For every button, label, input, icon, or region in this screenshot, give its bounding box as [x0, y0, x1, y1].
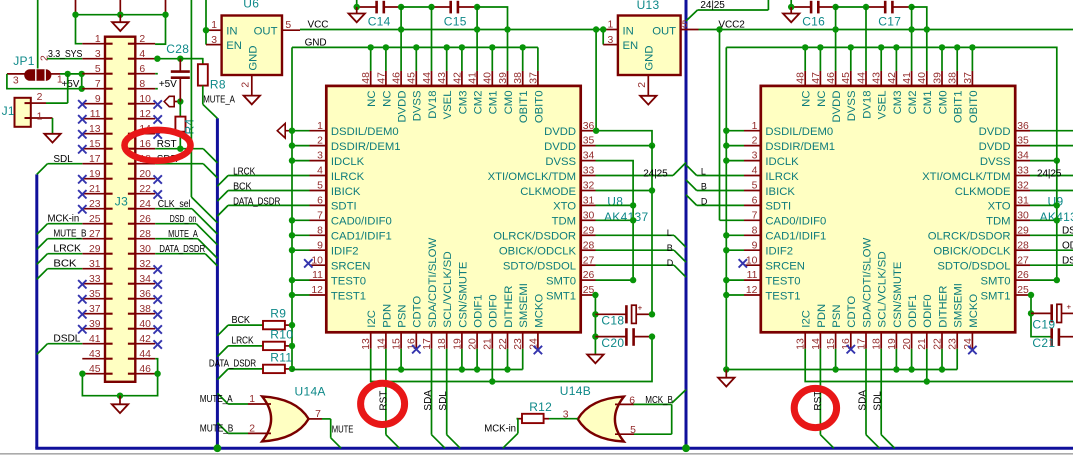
- wire U8 pin29 to bus label L: [596, 235, 687, 247]
- svg-text:XTO: XTO: [553, 201, 576, 213]
- svg-text:RST: RST: [157, 139, 177, 150]
- svg-text:CLK_sel: CLK_sel: [158, 199, 191, 210]
- wire U8 left GND column: [291, 47, 293, 369]
- svg-text:5: 5: [285, 20, 291, 31]
- svg-text:14: 14: [376, 338, 387, 350]
- svg-text:C21: C21: [1032, 336, 1055, 350]
- junction VCC rail pin36 column: [593, 26, 599, 32]
- junction RST / R4: [177, 146, 183, 152]
- svg-text:DVDD: DVDD: [397, 91, 409, 123]
- wire U8 pin36 DVDD to VCC: [596, 30, 653, 146]
- wire MUTE_A from R8 to bus: [203, 86, 218, 119]
- wire DATA_DSDR J3 pin30: [155, 254, 217, 266]
- svg-text:3: 3: [608, 35, 614, 46]
- resistor R8: [180, 59, 207, 86]
- svg-text:DV18: DV18: [861, 91, 873, 119]
- junction DVDD chain pin32: [649, 187, 655, 193]
- svg-text:37: 37: [963, 72, 974, 84]
- svg-text:SDL: SDL: [873, 391, 884, 411]
- junctions U8 VCC rail: [398, 26, 511, 32]
- svg-text:7: 7: [317, 210, 323, 221]
- junction U9 DVSS chain pin26: [1054, 277, 1060, 283]
- svg-text:OBIT1: OBIT1: [518, 91, 530, 124]
- svg-text:SMT1: SMT1: [546, 290, 576, 302]
- svg-text:DATA_DSDR: DATA_DSDR: [159, 244, 205, 255]
- svg-text:24|25: 24|25: [643, 169, 668, 180]
- svg-text:DSD_on: DSD_on: [170, 214, 197, 225]
- svg-text:5: 5: [752, 181, 758, 192]
- junction rail B2 pin21: [924, 378, 930, 384]
- svg-text:24|25: 24|25: [1037, 169, 1062, 180]
- svg-text:DVSS: DVSS: [545, 156, 576, 168]
- wire U9 pin31 XTO: [1030, 204, 1057, 206]
- svg-text:21: 21: [483, 338, 494, 350]
- svg-text:I2C: I2C: [801, 310, 813, 328]
- svg-text:46: 46: [392, 72, 403, 84]
- wire 24|25 top right: [686, 0, 768, 21]
- svg-text:5: 5: [317, 181, 323, 192]
- svg-text:40: 40: [917, 72, 928, 84]
- svg-text:CM3: CM3: [892, 91, 904, 115]
- svg-text:PDN: PDN: [816, 304, 828, 328]
- junction rail B pin21: [489, 378, 495, 384]
- junctions rail A U8: [398, 366, 511, 372]
- svg-text:15: 15: [826, 338, 837, 350]
- svg-text:OUT: OUT: [254, 25, 278, 37]
- bus vertical left: [35, 174, 38, 448]
- svg-text:VCC: VCC: [308, 20, 329, 31]
- junction DVSS chain pin26: [630, 277, 636, 283]
- svg-text:6: 6: [752, 196, 758, 207]
- wire U8 pin26 SMT0: [596, 279, 634, 281]
- junctions U8 left column: [289, 128, 295, 299]
- svg-text:XTO: XTO: [988, 201, 1011, 213]
- wire SDL to J3 pin17: [37, 164, 83, 175]
- svg-text:9: 9: [752, 240, 758, 251]
- wire rail B (U8 bottom): [371, 337, 652, 382]
- svg-text:B: B: [701, 181, 707, 191]
- svg-text:43: 43: [872, 72, 883, 84]
- svg-text:33: 33: [583, 166, 595, 177]
- svg-text:1: 1: [608, 20, 614, 31]
- svg-text:AK4137: AK4137: [604, 210, 649, 224]
- svg-text:IDCLK: IDCLK: [331, 156, 365, 168]
- sheet border line bottom: [0, 453, 1073, 455]
- svg-text:DSDIL/DEM0: DSDIL/DEM0: [765, 126, 833, 138]
- svg-text:42: 42: [887, 72, 898, 84]
- svg-text:BCK: BCK: [233, 182, 252, 193]
- ground symbol below C14: [349, 7, 365, 22]
- svg-text:MCKO: MCKO: [968, 294, 980, 328]
- svg-text:43: 43: [437, 72, 448, 84]
- wire DSD_on J3 pin26: [155, 224, 217, 245]
- svg-text:J3: J3: [115, 195, 128, 209]
- wire SDA descender U9 pin17: [866, 349, 880, 448]
- svg-text:17: 17: [856, 338, 867, 350]
- jumper JP1: [25, 69, 51, 81]
- wire U8 pin31 XTO: [596, 204, 634, 206]
- svg-text:CM0: CM0: [937, 91, 949, 115]
- junction U9 DVSS chain pin31: [1054, 202, 1060, 208]
- svg-text:1: 1: [249, 394, 255, 405]
- svg-text:SRCEN: SRCEN: [765, 261, 805, 273]
- svg-text:DVDD: DVDD: [979, 126, 1011, 138]
- svg-text:R10: R10: [270, 327, 293, 341]
- svg-text:1: 1: [752, 121, 758, 132]
- annotation red ellipse J3 pin16 RST: [125, 130, 191, 161]
- svg-text:NC: NC: [366, 91, 378, 107]
- svg-text:IDCLK: IDCLK: [765, 156, 799, 168]
- resistor R9: [263, 321, 292, 329]
- svg-text:SDTI: SDTI: [331, 201, 357, 213]
- svg-text:28: 28: [1017, 240, 1029, 251]
- svg-text:I2C: I2C: [366, 310, 378, 328]
- junction ground loop bottom: [117, 393, 123, 399]
- svg-text:TDM: TDM: [552, 216, 576, 228]
- wire U8 pin30 TDM: [596, 219, 634, 221]
- bus vertical middle: [216, 118, 219, 448]
- svg-text:CAD1/IDIF1: CAD1/IDIF1: [765, 231, 826, 243]
- svg-text:D: D: [667, 258, 674, 268]
- U13 pin names: [623, 25, 677, 52]
- svg-text:34: 34: [583, 151, 595, 162]
- capacitor C21: [1052, 328, 1073, 346]
- wire U6 input from top: [205, 0, 207, 45]
- junction C19 left: [1028, 310, 1034, 316]
- wire CLK_sel J3 pin24: [155, 209, 217, 234]
- wire R12 to U14B pin3: [549, 418, 578, 420]
- junction top rail x165: [162, 12, 168, 18]
- svg-text:OBIT0: OBIT0: [533, 91, 545, 124]
- wires U9 left pins to column: [726, 131, 744, 295]
- no-connect U8 pin24: [534, 346, 542, 354]
- svg-text:+5V: +5V: [62, 79, 80, 90]
- svg-text:RST: RST: [379, 391, 390, 411]
- svg-text:MUTE_A: MUTE_A: [203, 94, 235, 105]
- svg-text:R12: R12: [529, 400, 552, 414]
- junction DVSS chain pin30: [630, 217, 636, 223]
- pin 1 U13: [603, 29, 618, 31]
- wire J3 pin4 row (C28/R8 net): [155, 58, 203, 60]
- svg-text:DS: DS: [1062, 255, 1073, 266]
- svg-text:27: 27: [1017, 255, 1029, 266]
- svg-text:U13: U13: [637, 0, 660, 12]
- svg-text:27: 27: [583, 255, 595, 266]
- wire D to U9 pin6: [686, 195, 744, 206]
- op-amp U9 AK4137 body: [761, 86, 1015, 332]
- junction U9 pin25 corner: [1028, 292, 1034, 298]
- svg-text:R11: R11: [270, 350, 292, 364]
- svg-text:39: 39: [498, 72, 509, 84]
- wires U8 VCC pins 46/41/39: [401, 7, 507, 71]
- svg-text:PDN: PDN: [381, 304, 393, 328]
- pin stubs and numbers U9: [744, 71, 1030, 350]
- svg-text:20: 20: [902, 338, 913, 350]
- svg-text:4: 4: [317, 166, 323, 177]
- J3 no-connect marks right: [154, 100, 162, 348]
- wires U9 VCC2 pins 46/41/40: [836, 7, 927, 71]
- bus horizontal bottom: [35, 447, 1073, 450]
- svg-text:13: 13: [361, 338, 372, 350]
- svg-text:DSDIL/DEM0: DSDIL/DEM0: [331, 126, 399, 138]
- svg-text:CM1: CM1: [488, 91, 500, 115]
- wire top rail to J3 pins 1-2: [76, 0, 166, 44]
- pin 1 U6: [206, 29, 222, 31]
- svg-text:OBIT0: OBIT0: [968, 91, 980, 124]
- pin 2 U6 GND: [251, 75, 253, 96]
- pin 5 U13 OUT: [681, 29, 699, 31]
- wire LRCK to U8 pin4: [217, 176, 309, 187]
- wire SDA descender U8 pin17: [432, 349, 446, 448]
- svg-text:PSN: PSN: [831, 304, 843, 327]
- svg-text:CM3: CM3: [457, 91, 469, 115]
- wire cap row C17 to VCC2 corner: [912, 7, 927, 30]
- junction U9 DVSS chain pin30: [1054, 217, 1060, 223]
- svg-text:22: 22: [498, 338, 509, 350]
- svg-text:28: 28: [583, 240, 595, 251]
- svg-text:VSEL: VSEL: [442, 91, 454, 120]
- svg-text:CAD0/IDIF0: CAD0/IDIF0: [331, 216, 392, 228]
- svg-text:CAD1/IDIF1: CAD1/IDIF1: [331, 231, 392, 243]
- svg-text:CDTO: CDTO: [846, 296, 858, 328]
- svg-text:IBICK: IBICK: [765, 186, 795, 198]
- svg-text:10: 10: [746, 255, 758, 266]
- wire U9 pin44 from C17: [865, 7, 867, 71]
- junction DVDD chain pin35: [649, 142, 655, 148]
- wire RST descender U8 pin14: [386, 349, 400, 448]
- svg-text:10: 10: [311, 255, 323, 266]
- svg-text:C17: C17: [878, 14, 901, 28]
- wire VCC rail: [300, 29, 603, 31]
- svg-text:R8: R8: [210, 77, 226, 91]
- wire U8 pin34 DVSS chain: [596, 161, 634, 279]
- svg-text:SMSEMI: SMSEMI: [518, 283, 530, 328]
- svg-text:12: 12: [746, 285, 758, 296]
- svg-text:12: 12: [311, 285, 323, 296]
- svg-text:1: 1: [211, 20, 217, 31]
- svg-text:DVSS: DVSS: [846, 90, 858, 121]
- svg-text:3: 3: [13, 76, 19, 87]
- pin stubs and numbers U8: [310, 71, 596, 350]
- svg-text:L: L: [701, 166, 706, 176]
- svg-text:XTI/OMCLK/TDM: XTI/OMCLK/TDM: [922, 171, 1011, 183]
- ground symbol below U13: [640, 96, 656, 105]
- connector J1: [15, 98, 31, 127]
- svg-text:L: L: [667, 228, 672, 238]
- svg-text:SMT1: SMT1: [980, 290, 1010, 302]
- svg-text:11: 11: [312, 270, 323, 281]
- svg-text:OBICK/ODCLK: OBICK/ODCLK: [933, 246, 1011, 258]
- pin names U9: [765, 90, 1011, 328]
- svg-text:18: 18: [872, 338, 883, 350]
- svg-text:19: 19: [452, 338, 463, 350]
- svg-text:EN: EN: [623, 40, 639, 52]
- hierarchical label arrow at U8 pin1: [277, 123, 292, 138]
- wire U9 pin36 DVDD right: [1030, 130, 1073, 132]
- wire MCK_B loop to U14B pin5: [615, 404, 672, 434]
- svg-text:SMSEMI: SMSEMI: [953, 283, 965, 328]
- junction C14 right / pin46 column: [398, 4, 404, 10]
- junctions U9 left column: [723, 128, 729, 299]
- svg-text:6: 6: [629, 395, 635, 406]
- svg-text:24|25: 24|25: [700, 0, 725, 11]
- svg-text:GND: GND: [247, 45, 259, 70]
- wire U9 pin34 DVSS: [1030, 160, 1057, 162]
- svg-text:31: 31: [583, 196, 595, 207]
- svg-text:IN: IN: [226, 25, 237, 37]
- wire U9 pin26 SMT0: [1030, 279, 1057, 281]
- svg-text:3: 3: [211, 35, 217, 46]
- svg-text:35: 35: [1017, 136, 1029, 147]
- svg-text:2: 2: [317, 136, 323, 147]
- svg-text:2: 2: [37, 92, 43, 103]
- svg-text:41: 41: [468, 72, 479, 84]
- svg-text:DVDD: DVDD: [979, 141, 1011, 153]
- wire U8 pin32 CLKMODE: [596, 190, 653, 192]
- svg-text:U8: U8: [607, 195, 623, 209]
- svg-text:DVSS: DVSS: [980, 156, 1011, 168]
- svg-text:7: 7: [315, 409, 321, 420]
- svg-text:19: 19: [887, 338, 898, 350]
- svg-text:44: 44: [856, 72, 867, 84]
- svg-text:GND: GND: [644, 45, 656, 70]
- wire U9 pin25 SMT1 down to C19/C21: [1030, 295, 1052, 337]
- wire +5V drop pin5 to pin7 row: [81, 74, 83, 89]
- svg-text:DVSS: DVSS: [412, 90, 424, 121]
- svg-text:15: 15: [392, 338, 403, 350]
- svg-text:37: 37: [528, 72, 539, 84]
- svg-text:24: 24: [963, 338, 974, 350]
- J3 pin stubs left: [82, 44, 105, 374]
- or-gate U14A: [262, 396, 309, 441]
- junctions U8 top pins GND rail: [368, 44, 526, 50]
- or-gate U14B: [578, 397, 624, 442]
- no-connect U9 pin16: [847, 345, 855, 353]
- svg-text:SDL: SDL: [438, 391, 449, 411]
- capacitor C18: [595, 303, 652, 323]
- wire BCK to U8 pin5: [217, 191, 309, 202]
- svg-text:22: 22: [932, 338, 943, 350]
- svg-text:U6: U6: [243, 0, 259, 11]
- svg-text:R9: R9: [270, 307, 286, 321]
- svg-text:17: 17: [422, 338, 433, 350]
- svg-text:45: 45: [841, 72, 852, 84]
- junction R11 right: [289, 366, 295, 372]
- svg-text:OUT: OUT: [652, 25, 676, 37]
- ground symbol top-left: [112, 15, 128, 31]
- wire cap row C14-C15: [401, 6, 431, 8]
- svg-text:DVDD: DVDD: [831, 91, 843, 123]
- regulator U6 body: [222, 16, 282, 76]
- ground symbol below J3: [112, 396, 128, 413]
- pin 5 U6 OUT: [282, 29, 300, 31]
- svg-text:35: 35: [583, 136, 595, 147]
- annotation red circle U8 RST: [361, 383, 405, 424]
- svg-text:23: 23: [948, 338, 959, 350]
- wire U9 pin30 TDM: [1030, 219, 1057, 221]
- wire SDR J3 pin18: [155, 164, 217, 178]
- junction R10 right: [289, 343, 295, 349]
- svg-text:DATA_DSDR: DATA_DSDR: [233, 197, 280, 208]
- junction U9 DVSS chain pin34: [1054, 157, 1060, 163]
- wire U9 left GND column: [725, 47, 727, 369]
- junction +5V drop top: [79, 71, 85, 77]
- svg-text:TEST1: TEST1: [331, 290, 366, 302]
- svg-text:CLKMODE: CLKMODE: [955, 186, 1011, 198]
- regulator U13 body: [618, 16, 681, 76]
- wire MCK_B bus entry: [672, 390, 686, 403]
- svg-text:IN: IN: [623, 25, 634, 37]
- wire GND rail corner to pin37: [537, 47, 539, 71]
- wires U9 top pins to GND2 rail: [805, 47, 972, 71]
- ground symbol below U9 column: [718, 370, 734, 387]
- junction C17 left / pin44 column: [863, 4, 869, 10]
- svg-text:33: 33: [1017, 166, 1029, 177]
- junction C28 bottom / arrow / R4: [177, 98, 183, 104]
- no-connect U8 pin16: [412, 345, 420, 353]
- svg-text:TEST1: TEST1: [765, 290, 800, 302]
- svg-text:MCK_B: MCK_B: [645, 395, 673, 406]
- svg-text:IBICK: IBICK: [331, 186, 361, 198]
- svg-text:31: 31: [1017, 196, 1029, 207]
- wire U9 pin29 right edge: [1030, 234, 1073, 236]
- wire U9 DVSS chain down: [1056, 161, 1058, 281]
- svg-text:MCKO: MCKO: [533, 294, 545, 328]
- svg-text:DVDD: DVDD: [544, 141, 576, 153]
- svg-text:29: 29: [1017, 225, 1029, 236]
- capacitor C15: [432, 1, 478, 14]
- svg-text:ODIF1: ODIF1: [473, 294, 485, 327]
- svg-text:32: 32: [1017, 181, 1029, 192]
- svg-text:38: 38: [513, 72, 524, 84]
- wire cap row C16-C17: [836, 6, 866, 8]
- svg-text:RST: RST: [813, 391, 824, 411]
- wire U8 pin33 XTI to bus: [596, 163, 687, 176]
- svg-text:SDA/CDTI/SLOW: SDA/CDTI/SLOW: [427, 237, 439, 327]
- wire rail A2 (U9 bottom): [726, 369, 957, 371]
- svg-text:OBIT1: OBIT1: [953, 91, 965, 124]
- svg-text:MUTE_A: MUTE_A: [168, 229, 198, 240]
- svg-text:B: B: [667, 243, 673, 253]
- wire LRCK to J3 pin29: [37, 254, 83, 265]
- svg-text:OLRCK/DSDOR: OLRCK/DSDOR: [493, 231, 576, 243]
- svg-text:45: 45: [407, 72, 418, 84]
- J3 no-connect marks left: [78, 100, 86, 333]
- wire JP1 pin2 up: [37, 0, 39, 69]
- capacitor C19: [1031, 303, 1073, 323]
- junction top rail x120: [117, 12, 123, 18]
- svg-text:2: 2: [752, 136, 758, 147]
- wire VCC2 column to U9 pin7: [720, 30, 745, 221]
- svg-text:CM1: CM1: [922, 91, 934, 115]
- svg-text:TDM: TDM: [986, 216, 1010, 228]
- junction DVSS chain pin31: [630, 202, 636, 208]
- svg-text:JP1: JP1: [13, 54, 35, 68]
- junction bus bottom / middle bus: [214, 444, 222, 452]
- wires U9 bottom pins to rail A2: [836, 349, 958, 370]
- svg-text:MUTE_B: MUTE_B: [53, 229, 86, 240]
- svg-text:SDA: SDA: [423, 390, 434, 411]
- svg-text:36: 36: [1017, 121, 1029, 132]
- pin 2 J1: [31, 74, 68, 103]
- junction C20 right: [649, 333, 655, 339]
- svg-text:+5V: +5V: [159, 79, 177, 90]
- svg-text:ILRCK: ILRCK: [331, 171, 365, 183]
- junction C15 left / pin44 column: [428, 4, 434, 10]
- wire DATA_DSDR to U8 pin6: [217, 205, 309, 216]
- hierarchical label arrow at pin10 row: [164, 96, 180, 106]
- wire cap row C15 to VCC corner: [477, 7, 507, 30]
